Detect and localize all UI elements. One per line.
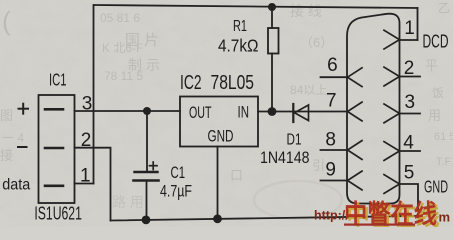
svg-text:2: 2 xyxy=(81,130,92,151)
svg-text:IS1U621: IS1U621 xyxy=(34,204,82,224)
svg-text:1: 1 xyxy=(404,18,415,39)
svg-text:饭: 饭 xyxy=(432,86,444,100)
svg-text:6: 6 xyxy=(327,55,338,76)
svg-text:IC1: IC1 xyxy=(49,70,67,90)
svg-text:OUT: OUT xyxy=(189,103,212,122)
svg-text:1: 1 xyxy=(80,166,91,187)
svg-text:用: 用 xyxy=(428,108,441,123)
svg-text:data: data xyxy=(2,176,30,193)
svg-text:GND: GND xyxy=(424,177,448,197)
svg-text:中瞥在线: 中瞥在线 xyxy=(344,199,437,227)
svg-text:05 81 6: 05 81 6 xyxy=(100,11,140,25)
svg-text:IN: IN xyxy=(238,103,250,122)
svg-text:7: 7 xyxy=(326,91,337,112)
svg-text:图: 图 xyxy=(0,108,13,123)
svg-text:GND: GND xyxy=(208,127,234,146)
svg-text:5: 5 xyxy=(404,163,415,184)
svg-text:m: m xyxy=(439,210,451,225)
svg-text:4.7kΩ: 4.7kΩ xyxy=(218,36,259,56)
svg-text:IC2: IC2 xyxy=(180,72,202,94)
svg-text:DCD: DCD xyxy=(423,31,449,52)
svg-text:4.7µF: 4.7µF xyxy=(160,182,192,201)
svg-text:3: 3 xyxy=(405,92,416,113)
svg-text:78 11 5: 78 11 5 xyxy=(104,69,143,83)
svg-text:引: 引 xyxy=(312,158,325,173)
svg-text:61 5: 61 5 xyxy=(434,131,453,143)
svg-text:9: 9 xyxy=(325,160,336,181)
svg-text:一 4: 一 4 xyxy=(2,131,24,145)
svg-text:2: 2 xyxy=(404,58,415,79)
svg-text:接: 接 xyxy=(0,148,13,163)
svg-text:1N4148: 1N4148 xyxy=(260,148,310,167)
svg-text:84以上: 84以上 xyxy=(290,83,327,97)
svg-text:R1: R1 xyxy=(233,18,247,35)
svg-text:C1: C1 xyxy=(171,163,186,182)
svg-text:78L05: 78L05 xyxy=(211,72,255,94)
svg-text:接 线: 接 线 xyxy=(290,3,322,19)
svg-text:8: 8 xyxy=(325,130,336,151)
svg-text:T.F1: T.F1 xyxy=(436,156,453,168)
svg-text:路 用: 路 用 xyxy=(112,194,144,210)
svg-text:（6）: （6） xyxy=(300,35,333,50)
svg-text:D1: D1 xyxy=(287,132,302,149)
svg-text:4: 4 xyxy=(403,133,414,154)
svg-text:口: 口 xyxy=(230,168,243,183)
svg-text:(: ( xyxy=(2,6,11,36)
svg-text:乙: 乙 xyxy=(438,1,450,15)
svg-text:3: 3 xyxy=(82,94,93,115)
svg-text:平: 平 xyxy=(425,58,438,73)
svg-text:K 北6-F: K 北6-F xyxy=(102,41,143,55)
